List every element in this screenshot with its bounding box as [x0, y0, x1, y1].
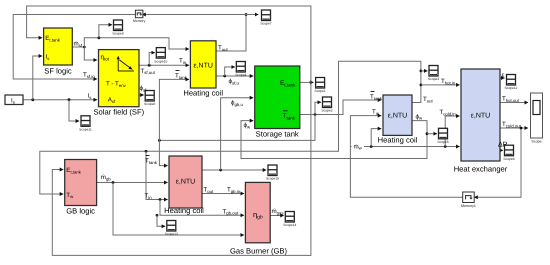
wire m_sf from SF logic — [72, 46, 84, 48]
scope Scope7 — [260, 10, 271, 26]
wire I_s to scope — [69, 100, 79, 121]
label SF inner axes glyph — [117, 59, 119, 72]
Memory1 block — [461, 192, 476, 208]
svg-text:ε,NTU: ε,NTU — [471, 113, 490, 120]
wire T_hot,out wire — [500, 102, 528, 104]
junction T_w j gb — [145, 150, 148, 153]
junction phi_w j — [426, 132, 429, 135]
wire T_w to scope — [421, 70, 428, 72]
wire phi_sf,u to storage — [216, 75, 253, 77]
block Solar field (SF) — [99, 50, 140, 107]
wire T_gb,out wire — [160, 200, 244, 216]
wire memory line to T_sf,in — [13, 15, 135, 80]
block Heating coil 1 — [190, 41, 216, 88]
junction T_w j scope — [420, 70, 423, 73]
svg-text:Scope4: Scope4 — [235, 73, 246, 77]
junction T_in gb j — [159, 198, 162, 201]
wire phi_w to scope — [427, 133, 437, 135]
junction m_w j2 — [444, 145, 447, 148]
wire T_out HC2 riser — [40, 61, 421, 194]
wire memory line left — [142, 14, 246, 16]
svg-text:GB logic: GB logic — [66, 207, 95, 216]
junction E net main — [310, 81, 313, 84]
wire m_w wire — [350, 146, 459, 148]
svg-text:SF logic: SF logic — [44, 67, 72, 76]
label m_w label — [352, 141, 365, 150]
junction T_out riser top — [245, 13, 248, 16]
svg-text:Heating coil: Heating coil — [378, 136, 418, 145]
junction phi_sf,u j — [223, 75, 226, 78]
svg-text:ε,NTU: ε,NTU — [388, 113, 407, 120]
wire m_sf to solar field — [84, 47, 97, 60]
wire phi_sf to Scope8 — [139, 94, 144, 96]
wire T_tank_bar down branch — [159, 115, 315, 141]
wire T_sf,out to Scope10 — [149, 53, 155, 66]
svg-text:Heating coil: Heating coil — [164, 206, 204, 215]
junction T_w j hotin — [420, 84, 423, 87]
svg-text:Storage tank: Storage tank — [256, 130, 299, 139]
junction T_cold,out j — [520, 127, 523, 130]
block source I_s — [5, 95, 23, 105]
block eta_gb — [245, 182, 270, 242]
wire m_sf upper branch to HC1 — [84, 38, 189, 49]
wire T_hot,in wire — [421, 84, 460, 86]
wire m_gb to eta_gb — [113, 183, 244, 236]
svg-text:Scope11: Scope11 — [79, 128, 92, 132]
scope Scope eps — [504, 75, 517, 91]
wire epsilon out — [500, 77, 505, 79]
scope Scope gb — [165, 221, 178, 237]
svg-text:Memory1: Memory1 — [461, 204, 476, 208]
wire T_gb,out to scope — [157, 215, 165, 226]
wire E_t,tank bottom loop to GB logic — [52, 82, 311, 255]
svg-text:Scope10: Scope10 — [154, 59, 167, 63]
svg-text:Scope5: Scope5 — [437, 140, 448, 144]
svg-text:Scope14: Scope14 — [283, 223, 296, 227]
wire T_in GB coil drop — [146, 151, 168, 199]
svg-text:Scope15: Scope15 — [266, 177, 279, 181]
wire phi_gb,u to storage — [221, 98, 254, 170]
svg-text:Scope13: Scope13 — [165, 232, 178, 236]
svg-text:Scope7: Scope7 — [260, 22, 271, 26]
wire T_cold,in riser — [445, 116, 459, 147]
scope Scope mgas — [283, 212, 296, 228]
wire T_cold,out drop — [474, 128, 521, 197]
wire m_w to HC2 — [371, 129, 381, 147]
svg-text:Memory: Memory — [133, 19, 146, 23]
wire memory line to Scope7 — [246, 14, 258, 16]
scope Scope phi_w — [437, 128, 448, 144]
svg-text:Scope2: Scope2 — [321, 109, 332, 113]
junction T_tank_bar j1 — [314, 113, 317, 116]
junction I_s j2 — [68, 98, 71, 101]
svg-text:Gas Burner (GB): Gas Burner (GB) — [230, 247, 287, 256]
wire E_t,tank top loop to SF logic — [27, 6, 311, 82]
junction T_sf,out j — [148, 64, 151, 67]
scope Scope8 — [144, 91, 155, 107]
svg-text:Heating coil: Heating coil — [183, 89, 223, 98]
svg-text:ΔP: ΔP — [498, 142, 508, 149]
svg-text:Scope3: Scope3 — [428, 77, 439, 81]
scope Scope10 — [154, 48, 167, 64]
wire E_t,tank storage to scope — [300, 81, 314, 83]
wire m_gas to scope — [270, 215, 284, 217]
wire T_tank_bar to Scope6 — [315, 102, 321, 114]
block Heating coil GB — [169, 156, 202, 208]
svg-text:Scope9: Scope9 — [112, 32, 123, 36]
wire T_sf,out to HC1 T_in — [139, 64, 189, 66]
wire T_out HC1 riser — [216, 15, 246, 52]
junction I_s j1 — [31, 98, 34, 101]
junction T_gb,out scope j — [156, 214, 159, 217]
svg-text:Scope6: Scope6 — [503, 157, 514, 161]
wire memory2 out to HC2 T_in — [350, 116, 462, 198]
block Heating coil 2 — [383, 95, 412, 135]
wire dP out — [500, 149, 503, 151]
block Storage tank — [255, 66, 300, 129]
wire T_out GB coil to T_gb,in — [202, 193, 244, 195]
scope Scope I_s — [79, 116, 92, 132]
wire T_tank_bar main — [300, 100, 382, 115]
wire I_s main — [23, 99, 97, 101]
junction m_sf j — [83, 46, 86, 49]
wire phi_w loop — [241, 121, 427, 159]
wire T_tank_bar to HC1 — [159, 79, 189, 140]
wire T_tank_bar to GB coil — [159, 140, 167, 165]
svg-text:Scope8: Scope8 — [144, 102, 155, 106]
scope Scope T_w — [428, 66, 439, 82]
wire I_s to SF logic — [33, 56, 42, 100]
svg-text:ε,NTU: ε,NTU — [193, 63, 212, 70]
svg-text:ε: ε — [502, 72, 505, 79]
svg-text:Scope: Scope — [531, 140, 541, 144]
wire phi_sf,u to Scope — [225, 67, 235, 76]
block GB logic — [65, 160, 97, 206]
svg-text:Scope12: Scope12 — [504, 86, 517, 90]
svg-text:Heat exchanger: Heat exchanger — [454, 165, 508, 174]
scope Scope phi_gb — [266, 165, 279, 181]
wire m_sf to Scope9 — [99, 25, 112, 38]
wire T_cold,out wire — [500, 127, 528, 129]
wire phi_gb from GB coil — [202, 169, 266, 171]
junction phi_gb j — [219, 169, 222, 172]
junction T_tank_bar j2 — [158, 139, 161, 142]
block SF logic — [44, 28, 73, 65]
svg-text:Solar field (SF): Solar field (SF) — [93, 108, 144, 117]
scope Scope dP — [503, 145, 514, 161]
block Heat exchanger — [461, 69, 500, 161]
scope Scope E — [315, 78, 326, 94]
scope Scope Ttank — [321, 97, 332, 113]
scope Scope phi_sfu — [235, 62, 246, 78]
junction m_w j1 — [370, 145, 373, 148]
scope Scope4 big display — [531, 93, 543, 144]
svg-text:Scope1: Scope1 — [315, 89, 326, 93]
scope Scope9 — [112, 20, 123, 36]
Memory block — [133, 10, 146, 23]
junction m_sf scope j — [98, 36, 101, 39]
wire m_gb to GB coil — [97, 182, 168, 184]
svg-text:ε,NTU: ε,NTU — [176, 179, 195, 186]
junction m_gb j — [112, 181, 115, 184]
